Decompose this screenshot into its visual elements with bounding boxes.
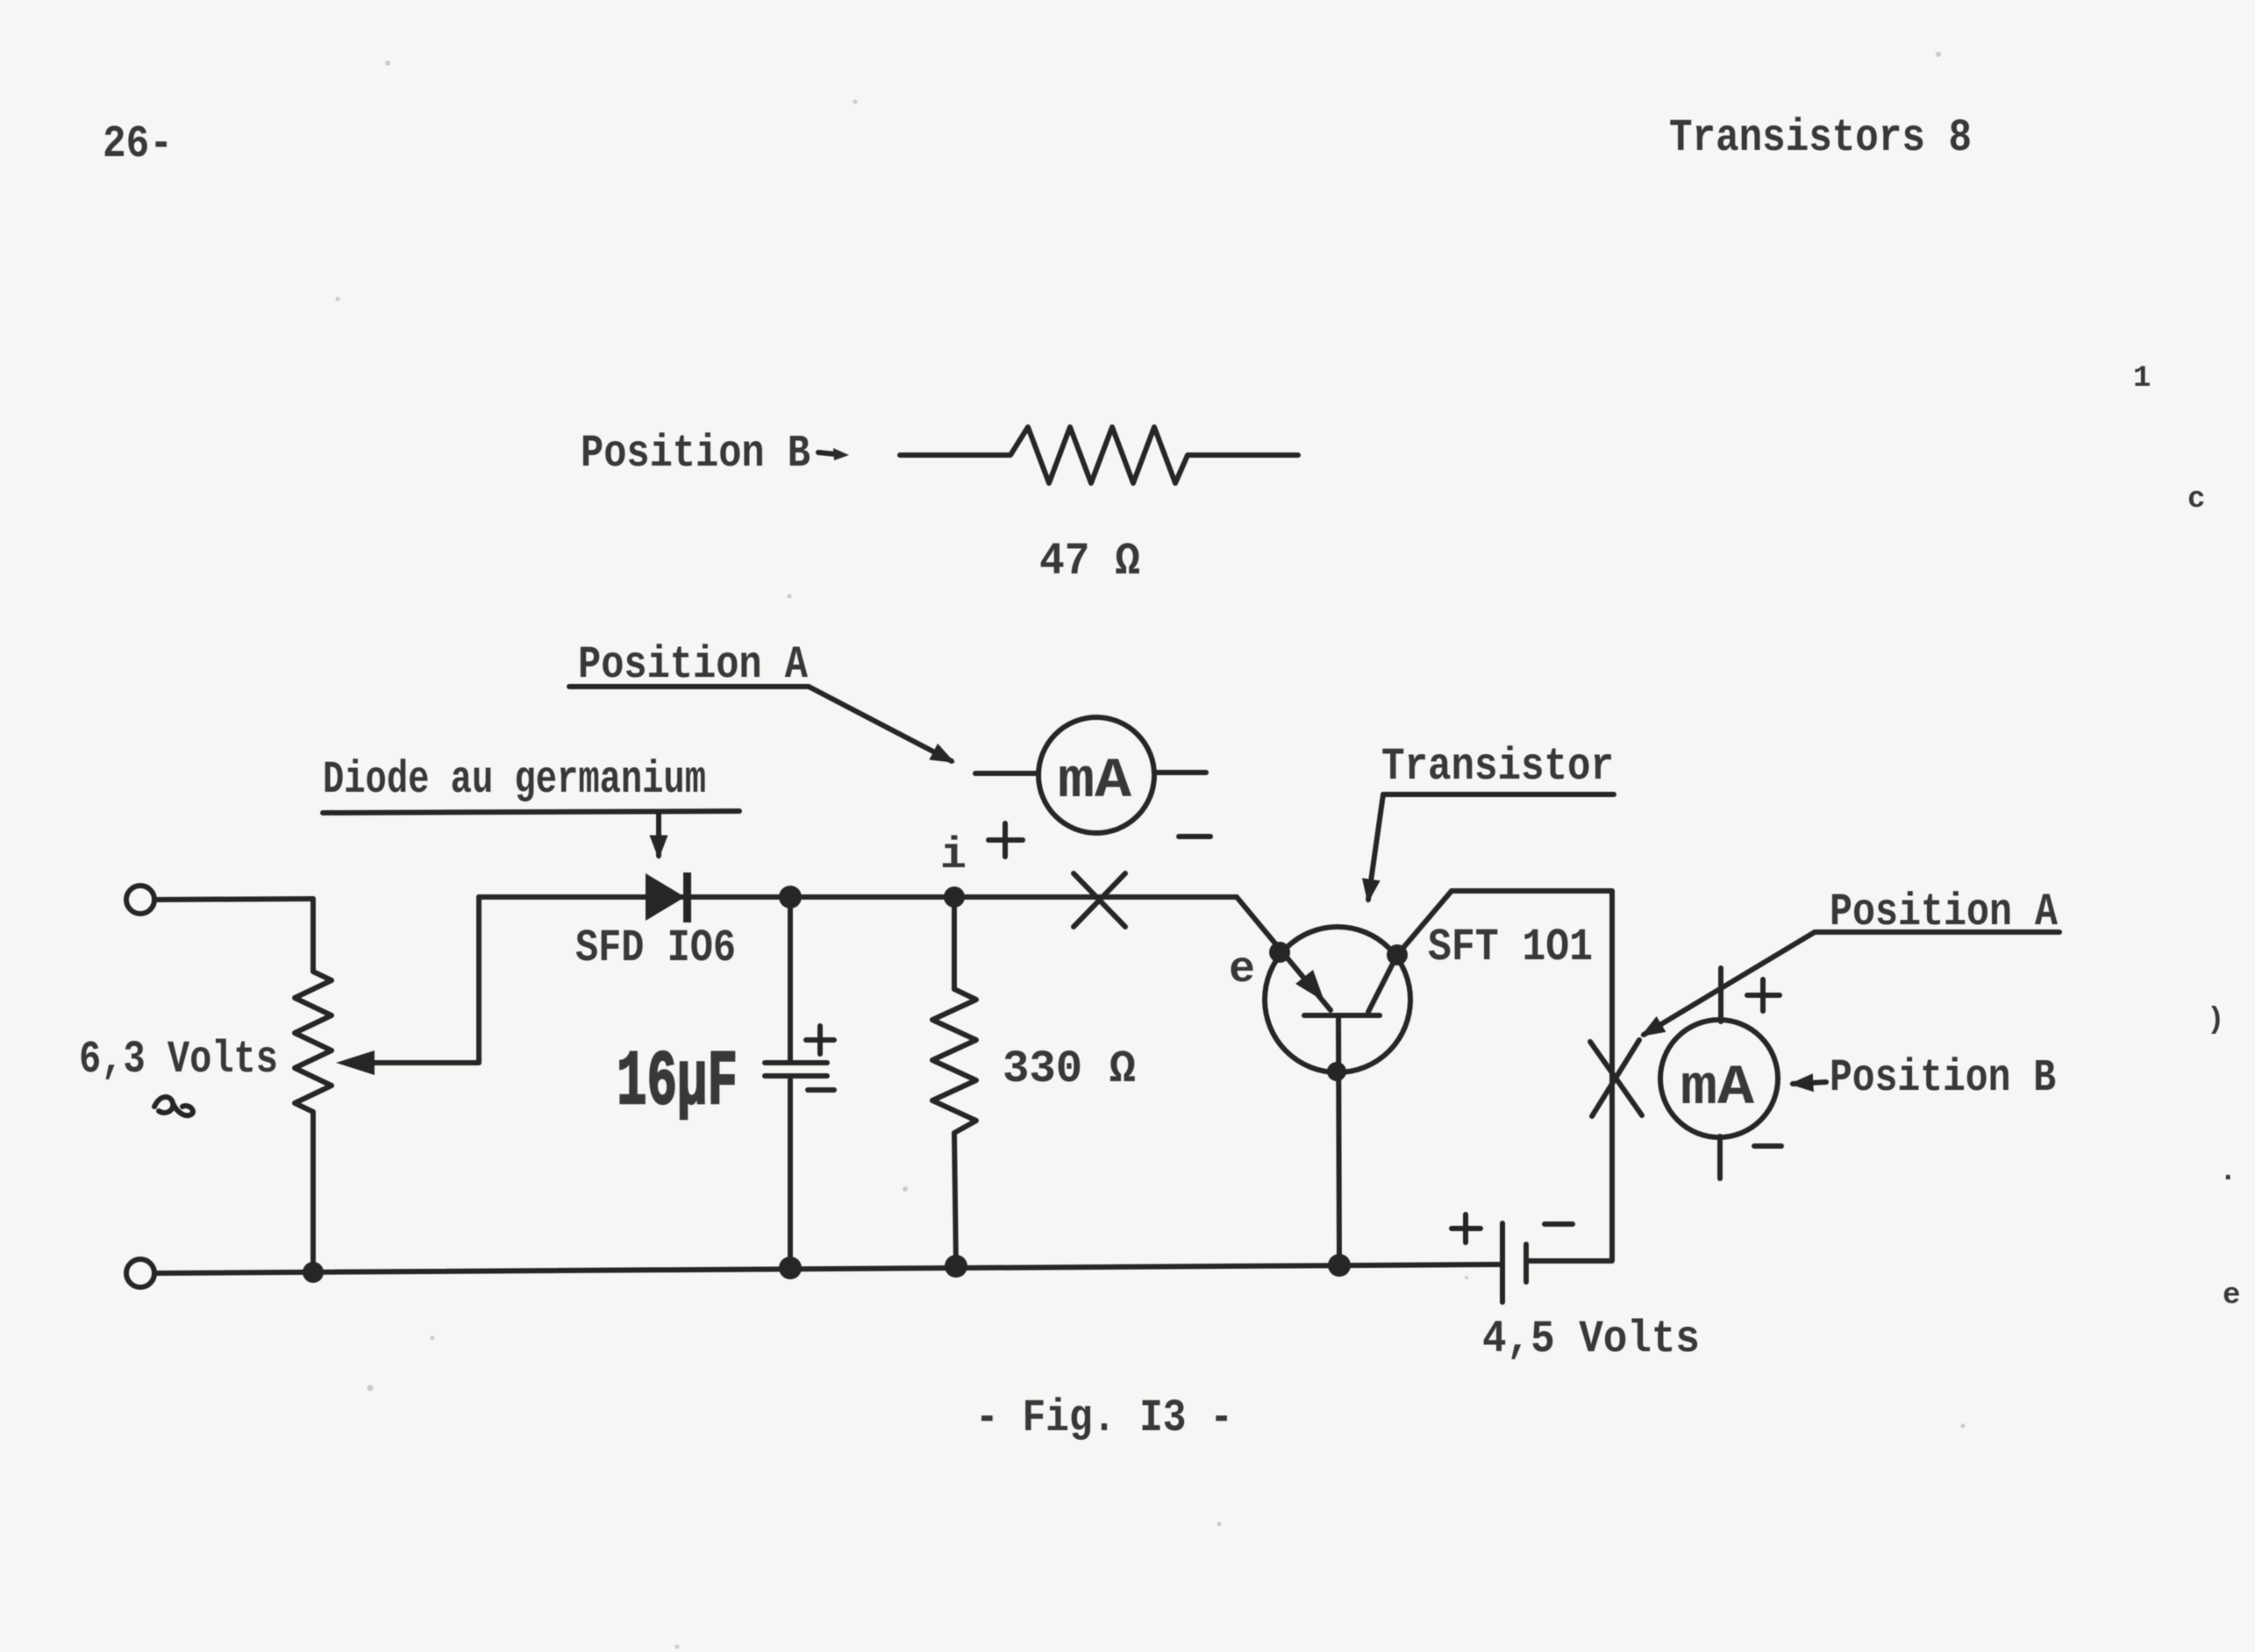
svg-text:i: i: [940, 831, 967, 881]
svg-text:- Fig. I3 -: - Fig. I3 -: [975, 1392, 1233, 1444]
svg-text:Position B: Position B: [1830, 1052, 2056, 1104]
svg-text:): ): [2207, 1004, 2224, 1037]
svg-text:Position B: Position B: [581, 428, 810, 480]
svg-text:e: e: [2223, 1279, 2240, 1313]
svg-text:1: 1: [2133, 362, 2151, 395]
svg-text:mA: mA: [1058, 751, 1132, 814]
svg-text:Position A: Position A: [578, 639, 809, 691]
svg-text:Diode au germanium: Diode au germanium: [323, 754, 706, 806]
svg-text:4,5 Volts: 4,5 Volts: [1482, 1314, 1700, 1365]
svg-text:6,3 Volts: 6,3 Volts: [79, 1034, 278, 1086]
svg-text:Transistors 8: Transistors 8: [1669, 112, 1972, 164]
svg-text:SFT 1O1: SFT 1O1: [1428, 922, 1593, 973]
svg-text:330 Ω: 330 Ω: [1003, 1043, 1136, 1095]
svg-text:Transistor: Transistor: [1381, 741, 1614, 793]
svg-text:26-: 26-: [103, 118, 173, 170]
svg-text:16µF: 16µF: [617, 1040, 738, 1127]
svg-text:mA: mA: [1681, 1057, 1755, 1121]
svg-text:47 Ω: 47 Ω: [1039, 536, 1140, 587]
svg-text:SFD IO6: SFD IO6: [575, 922, 736, 974]
svg-text:e: e: [1229, 945, 1255, 995]
svg-text:·: ·: [2219, 1162, 2237, 1195]
svg-text:c: c: [2187, 483, 2205, 516]
